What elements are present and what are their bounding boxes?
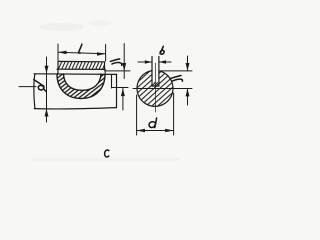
circle outline with slot gap at top <box>137 71 173 107</box>
crescent hatch between arcs <box>52 70 110 103</box>
slot bottom <box>152 85 159 87</box>
shaft centerline left <box>19 86 36 88</box>
shaft bottom <box>34 108 116 109</box>
keyway outer arc <box>57 74 105 99</box>
dimension l : dim line <box>58 52 106 54</box>
vertical centerline <box>155 63 157 112</box>
label d (left view, rotated) <box>34 80 46 92</box>
circle hatch <box>136 69 174 107</box>
shaft left edge <box>34 74 35 109</box>
faint scan smudges <box>30 20 180 161</box>
slot bottom shading <box>153 82 159 85</box>
shaft top surface <box>34 73 117 76</box>
h upper arrow (down) <box>122 63 126 71</box>
horizontal centerline <box>133 88 192 90</box>
label d (right view) <box>149 118 157 128</box>
h vertical lower with up arrow <box>187 89 189 106</box>
key bottom inner arc <box>64 74 102 90</box>
dimension b arrows <box>138 61 152 63</box>
d top arrow (down) <box>45 66 49 74</box>
key top chord <box>58 60 105 62</box>
label h (right view, rotated) <box>171 76 182 82</box>
key strip hatch <box>58 62 105 69</box>
h vertical upper with down arrow <box>187 56 189 71</box>
dimension h (left view) extension line <box>105 70 131 72</box>
shaft right edge <box>116 74 118 107</box>
dimension l : extension lines <box>57 44 59 61</box>
label b (right view) <box>160 46 164 54</box>
d dim line <box>137 130 174 132</box>
slot left wall + b extension <box>151 57 153 87</box>
dimension d (right view) extension lines <box>136 95 138 135</box>
shaft centerline right <box>112 87 128 89</box>
key strip bottom line <box>57 68 105 70</box>
l arrows <box>58 51 67 55</box>
dimension d (left view) vertical line <box>46 57 48 122</box>
label h (left view, rotated) <box>110 59 121 66</box>
dimension h (right view) extension line top <box>160 70 192 72</box>
key right end <box>104 62 106 70</box>
h dim vertical lower with up arrow to centerline <box>122 88 124 110</box>
label l (length of key) <box>78 44 81 53</box>
h dim vertical line upper <box>123 44 125 79</box>
key left end <box>57 61 59 74</box>
groove end edge line <box>111 75 113 89</box>
subfigure label c <box>105 150 109 157</box>
d bottom arrow (up) <box>45 109 49 117</box>
slot right wall + b extension <box>158 57 160 87</box>
